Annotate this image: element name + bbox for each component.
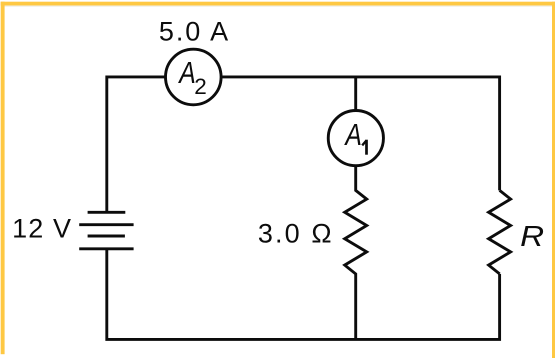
svg-text:A: A <box>178 55 196 90</box>
svg-text:2: 2 <box>194 74 207 99</box>
svg-text:5.0 A: 5.0 A <box>159 16 228 46</box>
svg-text:12 V: 12 V <box>12 214 71 244</box>
svg-text:A: A <box>344 117 362 152</box>
svg-text:3.0 Ω: 3.0 Ω <box>258 219 332 249</box>
svg-text:R: R <box>520 221 544 253</box>
